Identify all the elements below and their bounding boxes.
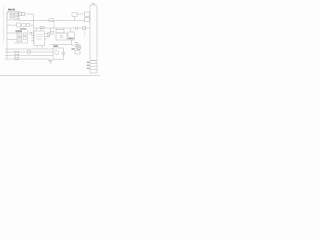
capacitor C8 [50, 31, 53, 34]
wire bundle 2 [5, 51, 53, 53]
wire riser snubber [53, 21, 55, 30]
riser [50, 28, 52, 31]
wire [7, 24, 17, 26]
relay coil [54, 50, 58, 54]
CRT connector body [90, 5, 97, 61]
wire [50, 45, 77, 48]
label cluster text [16, 30, 23, 32]
pin pads [30, 32, 32, 34]
wire left rail [6, 12, 8, 60]
junction [57, 28, 71, 32]
winding mark [60, 35, 63, 38]
connector pin lines [90, 64, 97, 70]
capacitor C3 [27, 24, 30, 27]
capacitor C6 [76, 27, 78, 31]
bead FB3 [15, 57, 18, 60]
label text [69, 38, 74, 40]
capacitor C4 [23, 33, 26, 36]
label K1 text [53, 45, 58, 47]
wire bundle 3 [5, 55, 53, 57]
wire long mid [34, 27, 90, 29]
sheet margin line [3, 6, 5, 42]
bridge rectifier D2 [17, 38, 22, 42]
wire [30, 24, 34, 26]
pad P1 [48, 33, 50, 35]
wire top rail [7, 11, 20, 13]
transformer T1 [10, 14, 13, 18]
wire [71, 40, 73, 45]
varistor RV1 [22, 23, 26, 27]
separator line [0, 75, 100, 77]
bead FB1 [15, 51, 18, 54]
label text [72, 48, 76, 49]
filter block FL1 [7, 13, 19, 20]
wire [50, 59, 52, 61]
wire long top [19, 20, 85, 22]
snubber box [56, 30, 64, 33]
transistor Q1 [75, 43, 81, 50]
pin stubs U1 right [45, 34, 48, 40]
pin stubs U1 top [37, 28, 42, 31]
snubber box SB [72, 13, 77, 17]
regulator block [68, 32, 75, 40]
capacitor C1 [15, 14, 18, 16]
capacitor C5 [23, 37, 26, 40]
connector lower box J2 [90, 61, 97, 74]
relay K1 [53, 48, 64, 60]
coil L1 [85, 12, 90, 16]
pin stubs U1 left [31, 33, 34, 40]
pad P2 [48, 35, 50, 37]
wire [7, 33, 17, 40]
capacitor C2 [15, 17, 18, 19]
box on wire [40, 27, 44, 29]
wire [14, 30, 28, 43]
wire [25, 13, 34, 15]
label U1 text [36, 34, 43, 39]
pin labels [87, 62, 90, 69]
label text row2 [20, 28, 27, 29]
coil L3 [27, 50, 31, 54]
wire [84, 30, 86, 36]
resistor R5 [75, 51, 80, 54]
thermistor RT1 [17, 23, 21, 27]
wire bundle 1 [5, 48, 53, 50]
wire rail B [33, 14, 35, 44]
wire bundle 4 [5, 58, 51, 60]
ground [48, 61, 53, 63]
coil L2 [85, 17, 90, 21]
label AC input text [8, 9, 12, 11]
wire [77, 13, 85, 15]
transformer T2 [56, 33, 67, 40]
IC U1 [34, 31, 45, 46]
fuse F1 [19, 12, 22, 15]
fuse F2 [22, 12, 25, 15]
wire riser [74, 17, 76, 21]
relay contact [62, 52, 65, 55]
bridge rectifier D1 [17, 33, 22, 37]
connector tab [92, 3, 95, 5]
capacitor C7 [83, 27, 86, 30]
box on top wire [49, 19, 54, 22]
bead FB2 [15, 54, 18, 57]
pin stubs U1 bottom [37, 46, 42, 49]
